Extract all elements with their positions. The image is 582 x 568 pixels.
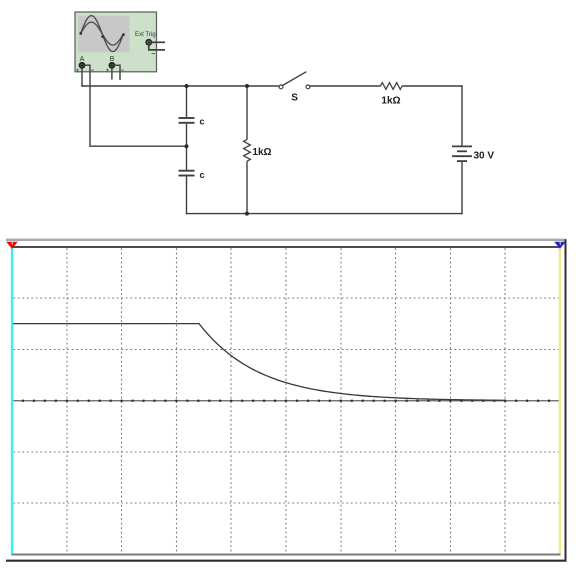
svg-text:A: A: [80, 56, 85, 63]
svg-text:B: B: [110, 56, 115, 63]
svg-text:S: S: [291, 93, 298, 104]
svg-text:1kΩ: 1kΩ: [252, 147, 271, 158]
svg-text:c: c: [200, 170, 205, 180]
svg-text:30 V: 30 V: [474, 151, 495, 162]
svg-text:Ext Trig: Ext Trig: [135, 31, 156, 38]
svg-text:1kΩ: 1kΩ: [381, 95, 400, 106]
svg-text:c: c: [200, 116, 205, 126]
